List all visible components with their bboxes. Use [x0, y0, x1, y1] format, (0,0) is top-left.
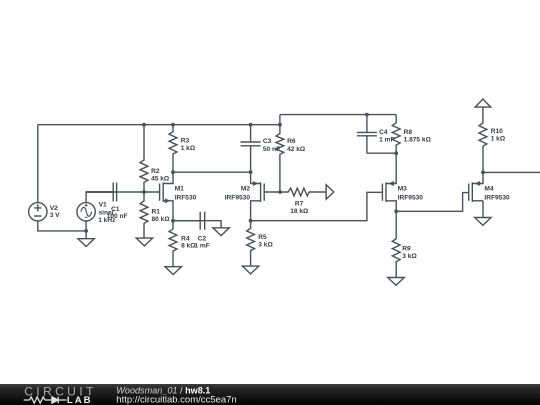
- wire M1 source node to C2: [173, 220, 200, 222]
- wire top-left rail VDD net: [38, 124, 280, 126]
- wire M3 drain node to M4 gate: [396, 193, 469, 212]
- svg-text:R9: R9: [402, 245, 411, 252]
- wire V2 bottom to ground node: [38, 221, 86, 231]
- footer bar: [0, 384, 540, 405]
- resistor R1 80k: [140, 192, 170, 238]
- svg-text:3 kΩ: 3 kΩ: [258, 242, 273, 249]
- node dot rail B C4: [365, 113, 369, 117]
- node dot R8 C4 M3 source: [394, 151, 398, 155]
- output port after R7: [326, 185, 334, 199]
- wire R10 bottom to M4 source node: [482, 146, 484, 172]
- node dot rail A R3: [171, 123, 175, 127]
- svg-text:C1: C1: [111, 206, 120, 213]
- power supply arrow VDD: [475, 99, 491, 107]
- svg-text:R10: R10: [491, 128, 503, 135]
- svg-text:R4: R4: [181, 235, 190, 242]
- wire C1 to M1 gate: [117, 191, 160, 193]
- capacitor C1 100n: [86, 183, 127, 220]
- node dot rail A C3: [249, 123, 253, 127]
- resistor R4 8k: [169, 221, 196, 267]
- svg-text:42 kΩ: 42 kΩ: [287, 146, 306, 153]
- svg-text:18 kΩ: 18 kΩ: [290, 208, 309, 215]
- wire C4 bottom to R8 bottom node: [367, 152, 396, 154]
- svg-text:IRF9530: IRF9530: [484, 194, 510, 201]
- wire top rail B: [280, 114, 396, 116]
- svg-text:R3: R3: [181, 138, 190, 145]
- ground under C2: [213, 228, 229, 236]
- ground under R9: [388, 278, 404, 286]
- node dot R10 M4 source: [481, 171, 485, 175]
- svg-text:45 kΩ: 45 kΩ: [151, 176, 170, 183]
- voltage source V2: [29, 203, 61, 221]
- svg-text:M2: M2: [241, 186, 250, 193]
- node dot C1 R2 R1 M1 gate: [142, 190, 146, 194]
- svg-text:R2: R2: [151, 168, 160, 175]
- ground under V1 V2: [85, 231, 87, 239]
- wire M4 source node to right edge: [483, 171, 540, 173]
- svg-text:IRF530: IRF530: [175, 194, 197, 201]
- svg-text:IRF9530: IRF9530: [398, 194, 424, 201]
- resistor R9 3k: [392, 211, 417, 277]
- capacitor C4 1m: [357, 115, 395, 154]
- svg-text:3 kΩ: 3 kΩ: [402, 253, 417, 260]
- wire C2 right to ground stub: [205, 221, 221, 228]
- svg-text:R6: R6: [287, 138, 296, 145]
- svg-text:1 kΩ: 1 kΩ: [491, 136, 506, 143]
- svg-text:C3: C3: [263, 138, 272, 145]
- svg-text:M3: M3: [398, 186, 407, 193]
- resistor R3 1k: [169, 125, 196, 173]
- node dot M3 drain R9: [394, 209, 398, 213]
- node dot rail A R6 corner: [278, 123, 282, 127]
- svg-text:R7: R7: [295, 201, 304, 208]
- svg-text:M4: M4: [484, 186, 493, 193]
- wire rail-A end riser to rail B: [279, 115, 281, 125]
- wire M1 drain node to M2 source node: [173, 171, 251, 173]
- ground under M4 drain: [482, 201, 484, 218]
- resistor R10 1k: [479, 107, 506, 146]
- node dot M2 gate R6 R7: [278, 190, 282, 194]
- svg-text:V1: V1: [99, 201, 107, 208]
- wire V2 top riser: [37, 125, 39, 203]
- svg-text:R5: R5: [258, 234, 267, 241]
- wire V1 bottom: [85, 221, 87, 231]
- svg-text:50 nF: 50 nF: [263, 146, 280, 153]
- node dot M2 drain R5: [249, 219, 253, 223]
- svg-text:100 nF: 100 nF: [107, 213, 128, 220]
- svg-text:1 mF: 1 mF: [379, 137, 394, 144]
- transistor M3 IRF9530 PMOS: [382, 153, 423, 211]
- resistor R2 45k: [140, 125, 170, 192]
- node dot rail A R2: [142, 123, 146, 127]
- voltage source V1 sine: [77, 201, 116, 224]
- svg-text:M1: M1: [175, 186, 184, 193]
- transistor M4 IRF9530 PMOS: [469, 172, 510, 202]
- transistor M2 IRF9530 PMOS mirrored: [225, 172, 280, 221]
- svg-text:1 kΩ: 1 kΩ: [181, 145, 196, 152]
- svg-text:http://circuitlab.com/cc5ea7n: http://circuitlab.com/cc5ea7n: [116, 394, 236, 405]
- node dot M1 drain R3: [171, 170, 175, 174]
- svg-text:R1: R1: [152, 208, 161, 215]
- wire V1 top to C1: [86, 192, 113, 203]
- node dot C3 M2 source: [249, 170, 253, 174]
- svg-text:LAB: LAB: [67, 395, 93, 405]
- svg-text:C2: C2: [198, 235, 207, 242]
- resistor R7 18k: [280, 188, 326, 215]
- ground under R5: [242, 266, 258, 274]
- capacitor C2 1m: [173, 212, 210, 250]
- node dot V1 V2 ground: [84, 229, 88, 233]
- svg-text:IRF9530: IRF9530: [225, 194, 251, 201]
- svg-text:C4: C4: [379, 129, 388, 136]
- svg-text:R8: R8: [404, 129, 413, 136]
- svg-text:V2: V2: [50, 205, 58, 212]
- svg-text:80 kΩ: 80 kΩ: [152, 216, 171, 223]
- resistor R6 42k: [276, 125, 306, 192]
- ground under R1: [136, 238, 152, 246]
- svg-text:1.875 kΩ: 1.875 kΩ: [404, 137, 432, 144]
- capacitor C3 50n: [241, 125, 281, 173]
- wire M2 drain node to M3 gate: [251, 192, 383, 220]
- svg-text:1 mF: 1 mF: [194, 243, 209, 250]
- CircuitLab logo doodle resistor diode: [24, 397, 67, 403]
- svg-text:3 V: 3 V: [50, 212, 60, 219]
- node dot M1 source R4 C2: [171, 219, 175, 223]
- ground under R4: [165, 267, 181, 275]
- resistor R8 1.875k: [392, 115, 431, 154]
- transistor M1 IRF530 NMOS: [160, 172, 197, 221]
- resistor R5 3k: [247, 221, 274, 266]
